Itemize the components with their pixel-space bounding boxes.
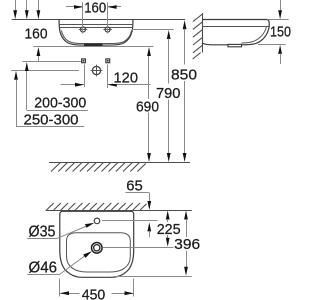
svg-text:160: 160 [25, 25, 48, 42]
svg-text:160: 160 [84, 0, 106, 16]
svg-text:850: 850 [171, 67, 197, 84]
svg-text:790: 790 [156, 85, 181, 102]
svg-text:450: 450 [82, 287, 106, 300]
svg-text:396: 396 [174, 236, 200, 253]
svg-text:150: 150 [270, 24, 291, 41]
svg-text:Ø35: Ø35 [29, 223, 56, 240]
svg-text:200-300: 200-300 [34, 94, 86, 111]
svg-text:250-300: 250-300 [24, 111, 79, 128]
svg-text:Ø46: Ø46 [29, 259, 58, 276]
svg-text:120: 120 [114, 70, 139, 87]
